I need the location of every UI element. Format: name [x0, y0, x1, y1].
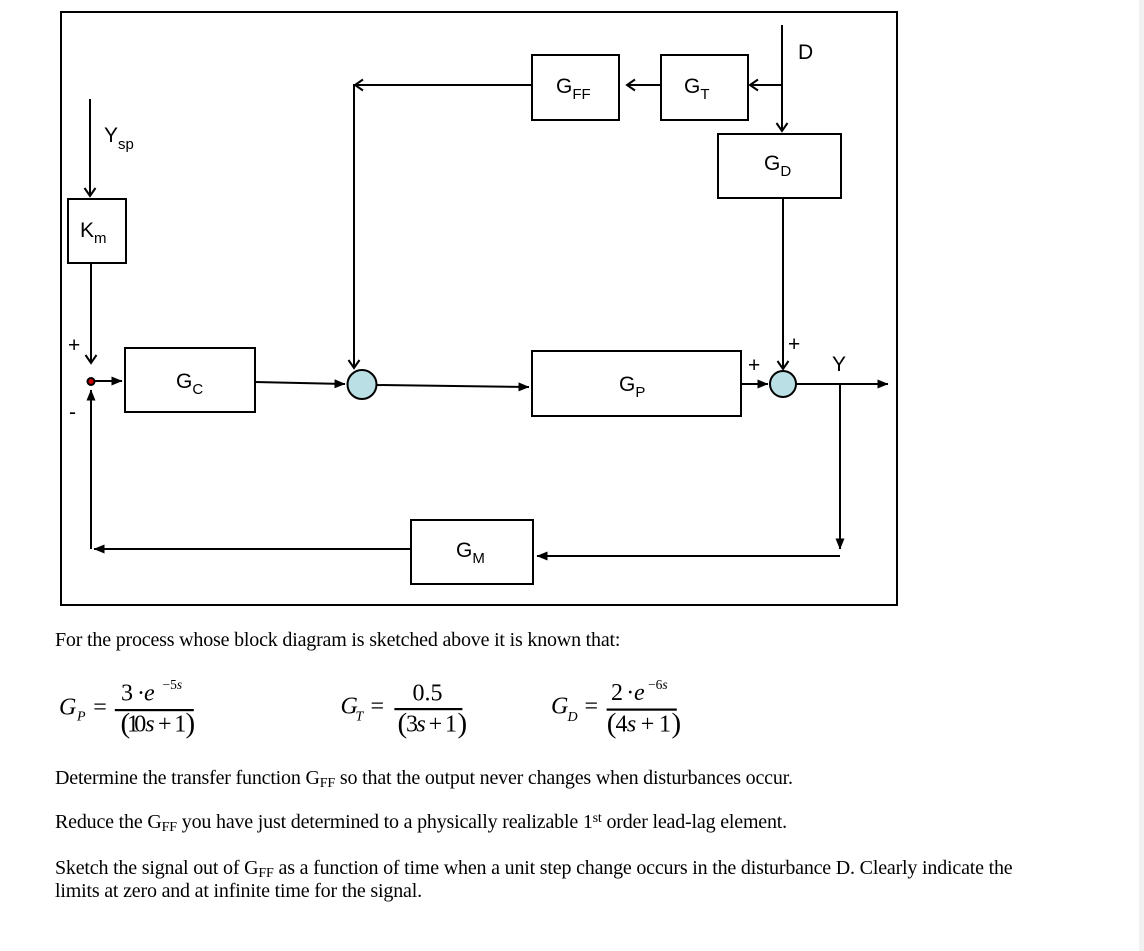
- svg-text:G: G: [551, 694, 568, 720]
- wire dot to Gc: [95, 380, 122, 382]
- block GT: [661, 55, 748, 120]
- svg-text:=: =: [93, 695, 107, 721]
- svg-text:Ysp: Ysp: [104, 124, 134, 153]
- block diagram: [0, 0, 940, 630]
- svg-text:): ): [672, 708, 682, 740]
- wire GT to GFF: [627, 84, 660, 86]
- wire feedback left segment: [94, 548, 411, 550]
- outer border frame: [61, 12, 897, 605]
- svg-text:e: e: [634, 680, 645, 706]
- block GM: [411, 520, 533, 584]
- svg-text:−6s: −6s: [648, 677, 668, 692]
- svg-text:P: P: [76, 710, 86, 725]
- summing circle 1: [348, 370, 377, 399]
- svg-text:2: 2: [611, 680, 623, 706]
- svg-text:e: e: [144, 681, 155, 707]
- svg-text:−5s: −5s: [163, 677, 183, 692]
- svg-text:+: +: [788, 333, 800, 356]
- svg-text:D: D: [567, 710, 578, 725]
- block GFF: [532, 55, 619, 120]
- wire branch down from output: [839, 384, 841, 549]
- svg-text:): ): [186, 708, 196, 740]
- equations block: [0, 620, 1144, 760]
- block Km: [68, 199, 126, 263]
- paragraph: Reduce: [55, 811, 787, 834]
- svg-text:): ): [458, 708, 468, 740]
- summing circle 2: [770, 371, 796, 397]
- paragraph: Sketch: [55, 857, 1012, 903]
- wire D to GT: [750, 84, 782, 86]
- red summing dot: [88, 378, 95, 385]
- wire Gp to summing circle 2: [741, 383, 768, 385]
- svg-text:=: =: [585, 694, 599, 720]
- svg-text:=: =: [371, 694, 385, 720]
- wire GFF output to corner: [355, 84, 531, 86]
- svg-text:Y: Y: [832, 353, 846, 376]
- svg-text:+: +: [68, 334, 80, 357]
- svg-text:3s + 1: 3s + 1: [406, 712, 457, 738]
- equation GT = 0.5/(3s+1): [341, 681, 468, 740]
- equation GD = 2e^-6s/(4s+1): [551, 677, 681, 740]
- wire feedback right segment into GM: [537, 555, 840, 557]
- wire Ysp arrow into Km: [89, 99, 91, 196]
- block Gp: [532, 351, 741, 416]
- wire output Y: [796, 383, 888, 385]
- block Gc: [125, 348, 255, 412]
- svg-text:+: +: [748, 354, 760, 377]
- svg-text:+: +: [158, 712, 172, 738]
- wire corner down to summing circle 1: [353, 84, 355, 368]
- svg-text:-: -: [69, 401, 76, 424]
- wire summing circle 1 to Gp: [377, 385, 529, 387]
- block GD: [718, 134, 841, 198]
- wire Km to summing dot: [90, 263, 92, 363]
- right gray strip: [1139, 0, 1144, 951]
- svg-text:s: s: [145, 712, 154, 738]
- svg-text:1: 1: [174, 712, 186, 738]
- svg-text:G: G: [59, 695, 76, 721]
- wire feedback up into dot: [90, 390, 92, 549]
- paragraph: For the process: [55, 629, 620, 652]
- paragraph: Determine: [55, 767, 793, 790]
- svg-text:0.5: 0.5: [413, 681, 443, 707]
- wire GD to summing circle 2: [782, 198, 784, 369]
- wire D input vertical: [781, 25, 783, 131]
- equation GP = 3e^-5s/(10s+1): [59, 677, 195, 740]
- svg-text:4s + 1: 4s + 1: [616, 712, 672, 738]
- svg-text:D: D: [798, 41, 813, 64]
- svg-text:3: 3: [121, 681, 133, 707]
- wire Gc to summing circle 1: [255, 382, 345, 384]
- svg-text:T: T: [356, 710, 365, 725]
